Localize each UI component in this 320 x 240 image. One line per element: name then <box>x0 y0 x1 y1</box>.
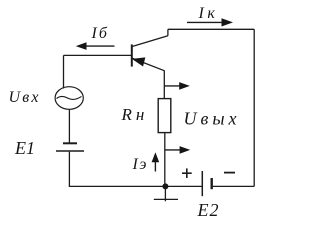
svg-text:E1: E1 <box>14 138 35 158</box>
wire emitter to resistor <box>163 70 165 98</box>
current arrow Ib <box>76 42 115 50</box>
transistor <box>132 36 168 71</box>
AC source Uvx <box>55 87 83 110</box>
label plus <box>182 168 192 178</box>
svg-text:Iк: Iк <box>198 5 219 22</box>
wire resistor to junction <box>164 133 166 187</box>
battery E1 <box>56 143 84 151</box>
svg-text:Rн: Rн <box>121 105 149 124</box>
wire top rail <box>168 28 254 30</box>
wire bottom rail <box>69 185 202 187</box>
voltage arrow Uvyh top <box>165 82 190 90</box>
current arrow Ie <box>152 152 160 171</box>
svg-text:Iб: Iб <box>91 25 109 42</box>
wire source to E1 <box>68 109 70 143</box>
wire collector jog <box>167 29 169 35</box>
label minus <box>224 172 235 174</box>
resistor Rn <box>158 99 171 133</box>
wire source top lead <box>63 55 65 88</box>
wire right rail <box>253 29 255 186</box>
svg-text:Uвх: Uвх <box>9 89 41 106</box>
svg-text:Iэ: Iэ <box>132 156 148 173</box>
svg-text:E2: E2 <box>197 200 220 220</box>
ground <box>154 186 178 201</box>
wire E1 to bottom rail <box>68 152 70 187</box>
node junction <box>162 183 168 189</box>
voltage arrow Uvyh bottom <box>165 146 191 154</box>
wire base lead <box>64 54 132 56</box>
current arrow Ik <box>187 18 233 26</box>
battery E2 <box>202 171 211 196</box>
wire E2 to right rail <box>213 185 254 187</box>
svg-text:Uвых: Uвых <box>184 109 241 129</box>
